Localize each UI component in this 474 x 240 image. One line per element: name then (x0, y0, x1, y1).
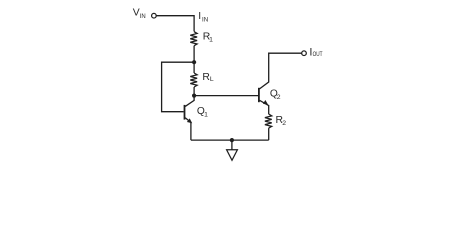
svg-text:OUT: OUT (313, 51, 323, 58)
svg-text:IN: IN (140, 13, 146, 20)
svg-text:1: 1 (204, 112, 208, 119)
svg-text:I: I (198, 11, 201, 22)
svg-text:2: 2 (282, 120, 286, 127)
svg-text:IN: IN (202, 17, 208, 24)
svg-text:1: 1 (209, 36, 213, 43)
svg-text:2: 2 (277, 94, 281, 101)
svg-text:L: L (210, 76, 214, 83)
svg-text:V: V (133, 8, 140, 19)
